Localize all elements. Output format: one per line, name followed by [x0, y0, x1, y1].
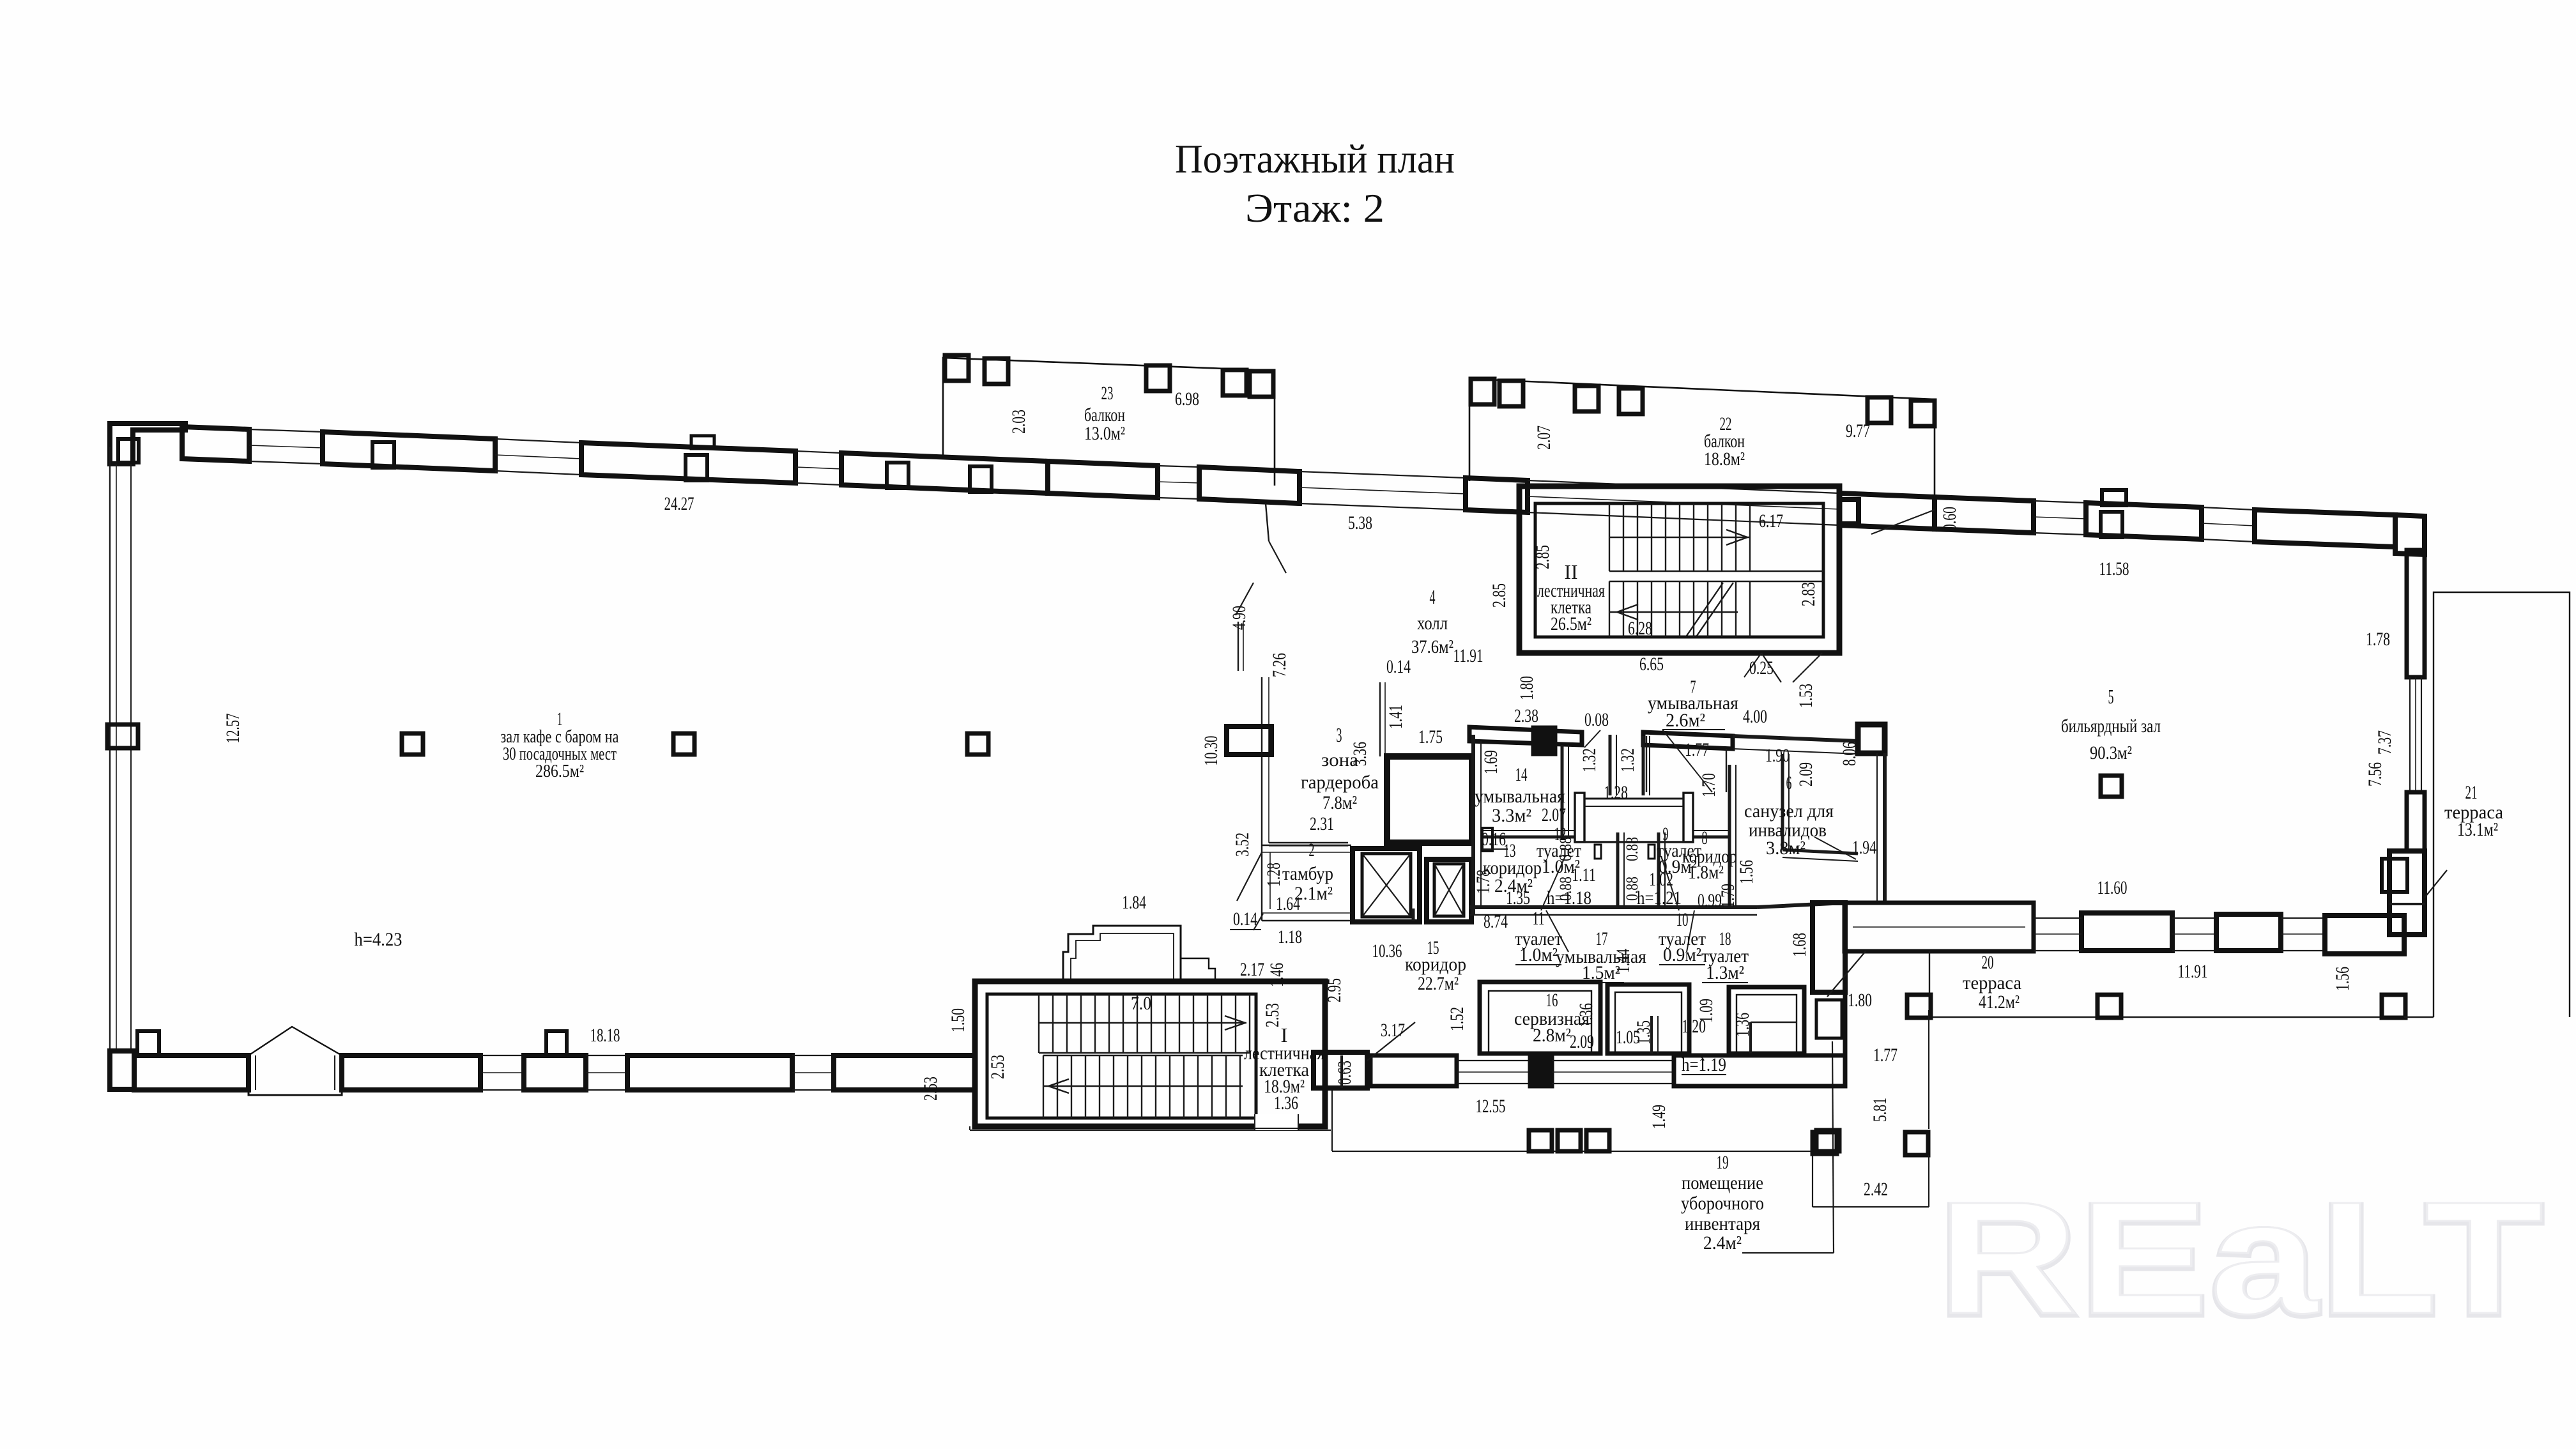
door leaf line: [1761, 653, 1781, 682]
leader 0.25: [1744, 653, 1761, 677]
svg-text:2.85: 2.85: [1489, 583, 1510, 608]
east wall block with niche: [2389, 851, 2425, 935]
stairwell I outer walls: [975, 981, 1325, 1126]
svg-text:14: 14: [1515, 764, 1528, 785]
svg-text:1.70: 1.70: [1698, 773, 1719, 797]
stairwell II inner walls: [1535, 503, 1823, 637]
door opening at stair I bottom right: [1255, 1114, 1298, 1130]
wall jog: [1412, 908, 1415, 921]
svg-text:41.2м²: 41.2м²: [1979, 992, 2020, 1013]
west wall pier: [107, 724, 138, 748]
wall 9/10 horizontal: [1693, 836, 1729, 839]
south wall segment: [2325, 916, 2404, 954]
billiard north wall segment: [1935, 497, 2034, 533]
stairwell II lower flight treads: [1609, 581, 1823, 637]
room 18 туалет walls: [1729, 987, 1804, 1054]
post below south wing: [1586, 1130, 1609, 1151]
svg-text:1.49: 1.49: [1648, 1105, 1669, 1129]
svg-text:37.6м²: 37.6м²: [1411, 636, 1453, 657]
balcony 22 post: [1867, 397, 1891, 423]
svg-text:2.4м²: 2.4м²: [1703, 1232, 1742, 1253]
wall between 9-10 and 8: [1728, 765, 1731, 907]
washstand base line: [1575, 841, 1693, 843]
svg-text:1.11: 1.11: [1572, 864, 1596, 885]
balcony 22 post: [1911, 401, 1935, 426]
room 6 north wall: [1733, 736, 1858, 741]
svg-text:1.36: 1.36: [1274, 1092, 1298, 1114]
svg-text:5.38: 5.38: [1348, 512, 1372, 533]
pilaster: [887, 463, 908, 488]
room 18 inner line: [1736, 995, 1797, 1054]
svg-text:1.64: 1.64: [1276, 893, 1300, 914]
tambour north wall: [1262, 845, 1351, 846]
stairwell I upper arrow: [1225, 1016, 1245, 1030]
leader 10: [1661, 856, 1679, 910]
window band across stair II top: [1528, 480, 1839, 493]
tambour west wall: [1261, 845, 1262, 921]
underline 1.0: [1515, 964, 1561, 965]
leader terrace 21: [2425, 870, 2447, 898]
svg-text:10.30: 10.30: [1200, 736, 1222, 766]
leader 3.17: [1367, 1022, 1415, 1061]
washstand leg left: [1575, 793, 1584, 842]
svg-text:1.56: 1.56: [2332, 967, 2353, 991]
svg-text:0.88: 0.88: [1556, 877, 1575, 901]
leader 11: [1541, 856, 1565, 910]
svg-text:24.27: 24.27: [664, 493, 694, 514]
terrace 20 north wall: [1844, 903, 2034, 951]
underline room19: [1742, 1252, 1834, 1253]
underline 0.14: [1230, 929, 1261, 930]
svg-text:7.26: 7.26: [1269, 653, 1290, 677]
west wall outer line: [109, 447, 111, 1055]
svg-text:1.78: 1.78: [2366, 629, 2390, 650]
south wing wall segment: [1370, 1055, 1457, 1086]
step outline outer: [1063, 926, 1181, 981]
notch above north wall: [691, 436, 714, 448]
window: [2172, 917, 2216, 919]
elevator shaft 2 with X: [1427, 859, 1471, 922]
svg-text:коридор: коридор: [1405, 954, 1466, 975]
svg-text:0.08: 0.08: [1584, 709, 1609, 730]
underline 0.16: [1482, 848, 1508, 850]
underline h=1.18: [1546, 907, 1592, 908]
svg-text:2.95: 2.95: [1324, 978, 1345, 1002]
partition in room 18: [1749, 1022, 1752, 1054]
north wall segment under balcony 23: [1048, 461, 1158, 498]
balcony 23 post: [945, 355, 969, 381]
window band W5: [1299, 471, 1466, 478]
cloakroom south wall: [1269, 842, 1348, 843]
elevator 1 X diag: [1362, 854, 1411, 917]
stairwell I inner walls: [987, 994, 1256, 1118]
north wall segment: [1199, 467, 1299, 503]
svg-text:6.28: 6.28: [1628, 618, 1652, 639]
porch gable lines: [249, 1027, 342, 1055]
svg-text:90.3м²: 90.3м²: [2090, 742, 2132, 763]
svg-text:18.8м²: 18.8м²: [1704, 448, 1745, 470]
wall between 14 and 12: [1561, 745, 1564, 837]
svg-text:8.06: 8.06: [1839, 742, 1860, 766]
svg-text:2.09: 2.09: [1795, 762, 1816, 786]
stairwell II lower flight arrow: [1617, 604, 1638, 620]
svg-text:2.31: 2.31: [1310, 813, 1334, 834]
svg-text:20: 20: [1982, 952, 1994, 973]
balcony 23 post: [1250, 371, 1273, 397]
svg-text:3: 3: [1337, 723, 1342, 746]
svg-text:19: 19: [1717, 1152, 1729, 1173]
niche 0.16: [1482, 828, 1492, 851]
pilaster below NW corner: [118, 439, 139, 463]
room 16 inner line: [1489, 991, 1591, 1054]
pilaster: [372, 442, 394, 468]
svg-text:13.0м²: 13.0м²: [1084, 423, 1125, 444]
svg-text:11: 11: [1533, 908, 1545, 929]
svg-text:21: 21: [2465, 782, 2478, 803]
south wing wall segment east: [1674, 1055, 1845, 1086]
door leaf line 2: [1793, 653, 1822, 682]
room 14 north wall: [1469, 727, 1582, 745]
svg-text:0.88: 0.88: [1556, 837, 1575, 861]
svg-text:9.77: 9.77: [1846, 420, 1870, 441]
door swing into тамбур: [1237, 852, 1262, 901]
svg-text:2.42: 2.42: [1864, 1179, 1888, 1200]
leader 1.94: [1814, 837, 1856, 859]
window line: [1457, 1060, 1530, 1061]
step outline inner: [1071, 933, 1174, 981]
svg-text:2.83: 2.83: [1798, 582, 1819, 606]
svg-text:REaLT: REaLT: [1938, 1169, 2545, 1347]
svg-text:2.38: 2.38: [1514, 705, 1538, 726]
underline h=1.19: [1682, 1074, 1726, 1075]
tambour south wall: [1262, 920, 1351, 921]
window W1: [249, 429, 323, 432]
underline 0.9: [1659, 964, 1705, 965]
south wall segment: [342, 1055, 480, 1090]
svg-text:5.81: 5.81: [1869, 1098, 1890, 1122]
svg-text:1.56: 1.56: [1736, 860, 1757, 884]
svg-text:2.17: 2.17: [1240, 959, 1264, 980]
svg-text:Этаж: 2: Этаж: 2: [1245, 185, 1384, 231]
svg-text:1.78: 1.78: [1473, 870, 1494, 894]
svg-text:1.41: 1.41: [1385, 705, 1406, 729]
svg-text:3.36: 3.36: [1349, 742, 1370, 766]
svg-text:1.79: 1.79: [1717, 884, 1738, 908]
svg-text:7.37: 7.37: [2374, 730, 2395, 755]
svg-text:1.44: 1.44: [1613, 949, 1634, 973]
svg-text:1.28: 1.28: [1604, 782, 1628, 803]
svg-text:санузел для: санузел для: [1744, 801, 1834, 822]
NW corner block: [110, 424, 185, 464]
room 7 west wall: [1646, 736, 1647, 792]
porch outline: [249, 1055, 342, 1095]
south wing east wall upper: [1813, 903, 1845, 992]
svg-text:7.8м²: 7.8м²: [1322, 792, 1357, 813]
window W4: [1158, 466, 1200, 467]
column in billiard hall: [2101, 776, 2122, 797]
pilaster above south wall: [137, 1031, 159, 1055]
svg-text:h=4.23: h=4.23: [355, 929, 402, 950]
balcony 22 post: [1575, 386, 1598, 411]
post SE: [1905, 1132, 1928, 1155]
balcony 23 post: [1146, 365, 1170, 391]
window W6: [2034, 501, 2086, 503]
small step outline right: [1181, 958, 1215, 981]
stairwell I lower arrow: [1048, 1079, 1069, 1093]
window line: [1552, 1060, 1674, 1061]
svg-text:2.53: 2.53: [987, 1055, 1008, 1079]
svg-text:286.5м²: 286.5м²: [535, 761, 584, 781]
leader room19: [1832, 1041, 1834, 1253]
room 17 умывальная walls: [1607, 985, 1689, 1054]
svg-text:3.52: 3.52: [1232, 832, 1253, 857]
terrace 20 post: [2097, 995, 2121, 1018]
corridor 8 south wall: [1757, 903, 1845, 907]
west wall inner line: [130, 464, 132, 1051]
balcony 22 railing: [1469, 379, 1935, 500]
terrace 20 west rail: [1929, 951, 1930, 1017]
svg-text:0.14: 0.14: [1386, 656, 1411, 677]
0.63 passage walls: [1314, 1052, 1367, 1088]
svg-text:4: 4: [1430, 585, 1436, 608]
svg-text:1.3м²: 1.3м²: [1706, 962, 1744, 983]
south boundary line: [1332, 1151, 1840, 1152]
svg-text:1.32: 1.32: [1579, 748, 1600, 772]
partition in room 17: [1650, 1016, 1653, 1054]
pilaster: [2101, 512, 2122, 537]
north wall segment near stair II: [1466, 478, 1528, 512]
svg-text:6.98: 6.98: [1175, 388, 1199, 410]
svg-text:холл: холл: [1417, 613, 1448, 634]
stairwell II outer walls: [1519, 486, 1839, 653]
pilaster: [686, 455, 707, 480]
leader room 7: [1662, 730, 1712, 792]
east wall between cluster and billiard hall: [1883, 753, 1887, 903]
svg-text:1.32: 1.32: [1617, 748, 1638, 772]
svg-text:10.36: 10.36: [1372, 940, 1402, 962]
terrace 20 post: [2382, 995, 2405, 1018]
south wall segment: [2081, 913, 2172, 951]
svg-text:4.00: 4.00: [1743, 706, 1767, 727]
svg-text:2: 2: [1309, 839, 1315, 861]
svg-text:1.35: 1.35: [1506, 887, 1530, 908]
wall from 0.63 down to south wing: [1340, 1055, 1343, 1088]
east boundary line down: [1928, 1010, 1929, 1129]
svg-text:2.53: 2.53: [920, 1077, 941, 1101]
svg-text:0.14: 0.14: [1233, 908, 1257, 930]
svg-text:1.69: 1.69: [1480, 750, 1501, 774]
terrace 21 outline: [2434, 592, 2570, 1017]
notch pilaster above billiard north wall: [2102, 490, 2126, 505]
svg-text:2.09: 2.09: [1570, 1031, 1594, 1052]
post below south wing: [1558, 1130, 1581, 1151]
svg-text:6.65: 6.65: [1639, 654, 1664, 675]
svg-text:5: 5: [2108, 685, 2114, 708]
svg-text:бильярдный зал: бильярдный зал: [2061, 716, 2161, 737]
wall stub 1.32 a: [1609, 735, 1612, 795]
stairwell II upper flight treads: [1609, 503, 1823, 571]
counter rail inner: [1584, 806, 1683, 807]
svg-text:7.56: 7.56: [2365, 762, 2386, 786]
balcony 22 post: [1471, 379, 1494, 404]
svg-text:2.07: 2.07: [1533, 425, 1554, 450]
svg-text:2.1м²: 2.1м²: [1294, 883, 1333, 904]
svg-text:1.18: 1.18: [1278, 926, 1302, 947]
stairwell I lower flight treads: [1043, 1055, 1243, 1118]
elevator 2 X diag: [1434, 864, 1464, 916]
wall shaft left: [1616, 832, 1620, 907]
svg-text:1.28: 1.28: [1263, 862, 1284, 887]
stairwell I upper flight treads: [1039, 994, 1250, 1053]
NE corner block: [2395, 515, 2425, 555]
svg-text:1.53: 1.53: [1795, 684, 1816, 708]
svg-text:2.8м²: 2.8м²: [1533, 1025, 1571, 1046]
north wall segment: [323, 432, 495, 471]
stairwell II upper flight arrow: [1726, 530, 1747, 545]
room 6 south wall: [1782, 850, 1858, 854]
svg-text:1.09: 1.09: [1696, 999, 1717, 1023]
cloakroom west wall outer: [1261, 677, 1262, 845]
east wall segment: [2407, 792, 2425, 851]
post SE 2: [1813, 1132, 1837, 1154]
wall stub: [1238, 622, 1239, 671]
svg-text:11.60: 11.60: [2097, 877, 2127, 898]
wall stub above shaft: [1379, 682, 1381, 756]
svg-text:1.80: 1.80: [1516, 676, 1537, 700]
svg-text:1.68: 1.68: [1789, 933, 1810, 957]
svg-text:0.88: 0.88: [1623, 837, 1641, 861]
svg-text:0.60: 0.60: [1939, 507, 1960, 531]
svg-text:3.3м²: 3.3м²: [1492, 805, 1531, 826]
small pier: [2382, 859, 2407, 892]
svg-text:23: 23: [1101, 383, 1114, 404]
billiard north wall segment: [2086, 503, 2202, 539]
svg-text:22.7м²: 22.7м²: [1418, 973, 1459, 994]
svg-text:1.36: 1.36: [1575, 1003, 1597, 1027]
svg-text:11.91: 11.91: [1453, 645, 1483, 666]
svg-text:1.0м²: 1.0м²: [1519, 944, 1558, 965]
svg-text:1.84: 1.84: [1122, 892, 1146, 913]
svg-text:11.91: 11.91: [2178, 961, 2208, 982]
room 6 west wall: [1781, 754, 1784, 850]
underline 2.6: [1662, 729, 1725, 730]
cluster south wall outer: [1469, 905, 1757, 909]
svg-text:1.90: 1.90: [1765, 745, 1790, 766]
window W2: [495, 439, 581, 443]
svg-text:0.63: 0.63: [1334, 1061, 1355, 1085]
svg-text:1.94: 1.94: [1852, 837, 1876, 858]
column in hall: [673, 733, 694, 755]
south window: [792, 1055, 834, 1056]
terrace 20 railing: [1929, 1016, 2404, 1018]
svg-text:1.77: 1.77: [1873, 1045, 1897, 1066]
balcony 22 post: [1619, 388, 1643, 414]
watermark Realt logo: [1938, 1169, 2545, 1349]
leader 0.08: [1584, 730, 1600, 747]
svg-text:1.52: 1.52: [1446, 1007, 1468, 1031]
elevator shaft 1 with X: [1353, 848, 1420, 922]
west wall middle line: [116, 464, 117, 1051]
counter rail top: [1584, 798, 1683, 800]
svg-text:1.75: 1.75: [1418, 726, 1443, 747]
terrace 20 post: [1907, 995, 1931, 1018]
svg-text:тамбур: тамбур: [1282, 863, 1333, 884]
svg-text:гардероба: гардероба: [1301, 772, 1379, 793]
svg-text:помещение: помещение: [1682, 1172, 1763, 1193]
ventilation shaft (big square): [1387, 756, 1472, 843]
svg-text:2.07: 2.07: [1542, 804, 1566, 825]
svg-text:12.57: 12.57: [222, 714, 243, 744]
billiard north wall segment: [2255, 510, 2395, 547]
underline 1.5: [1578, 982, 1624, 983]
svg-text:6.17: 6.17: [1759, 510, 1783, 532]
svg-text:инвентаря: инвентаря: [1685, 1213, 1760, 1234]
east window: [2409, 677, 2411, 792]
south wall segment: [524, 1055, 586, 1090]
window: [2281, 917, 2325, 919]
wall stub 1.32 b: [1642, 736, 1645, 795]
tick 0.14: [1253, 914, 1263, 930]
wall shaft right: [1657, 832, 1660, 907]
pilaster: [970, 466, 992, 492]
west boundary line: [1331, 1086, 1333, 1151]
column in hall: [967, 733, 988, 755]
svg-text:18.18: 18.18: [590, 1025, 620, 1046]
cluster south wall inner: [1469, 914, 1757, 916]
svg-text:1.36: 1.36: [1732, 1013, 1753, 1037]
svg-text:0.9м²: 0.9м²: [1663, 944, 1701, 965]
svg-text:10: 10: [1676, 909, 1689, 930]
pipe stub: [1648, 845, 1655, 859]
room 19 inner: [1816, 1000, 1842, 1038]
elevator 1 X diag: [1362, 854, 1411, 917]
svg-text:терраса: терраса: [1963, 972, 2021, 993]
pipe stub: [1595, 845, 1601, 859]
svg-text:26.5м²: 26.5м²: [1551, 613, 1591, 634]
svg-text:2.53: 2.53: [1262, 1003, 1283, 1027]
svg-text:Поэтажный план: Поэтажный план: [1175, 136, 1455, 181]
svg-text:уборочного: уборочного: [1681, 1193, 1764, 1214]
pilaster above south wall: [546, 1031, 567, 1055]
svg-text:0.16: 0.16: [1482, 829, 1506, 850]
south wall segment: [627, 1055, 792, 1090]
elevator 2 X diag: [1434, 864, 1464, 916]
pier block: [1530, 1055, 1552, 1086]
room19 court outline: [1813, 1206, 1929, 1207]
outline below stairwell I: [969, 1126, 970, 1130]
svg-text:1.50: 1.50: [947, 1008, 969, 1032]
room 17 inner line: [1615, 992, 1682, 1054]
cluster west wall: [1471, 735, 1475, 915]
south window: [586, 1055, 627, 1056]
svg-text:1.80: 1.80: [1848, 990, 1872, 1011]
svg-text:12.55: 12.55: [1476, 1096, 1506, 1117]
south window: [482, 1055, 524, 1056]
svg-text:2.85: 2.85: [1532, 545, 1553, 569]
washstand leg right: [1683, 793, 1693, 842]
svg-text:7.0: 7.0: [1131, 993, 1151, 1014]
window W7: [2202, 507, 2255, 510]
room 16 сервизная walls: [1480, 982, 1600, 1054]
thin outline below stair I: [970, 1130, 1331, 1131]
south wall segment: [134, 1055, 249, 1090]
leader to 0.60: [1871, 510, 1935, 534]
vent block on room14 wall: [1534, 728, 1554, 753]
north wall segment: [581, 443, 795, 483]
SW corner block: [110, 1051, 134, 1089]
underline 1.3: [1702, 982, 1748, 983]
post below south wing: [1529, 1130, 1552, 1151]
